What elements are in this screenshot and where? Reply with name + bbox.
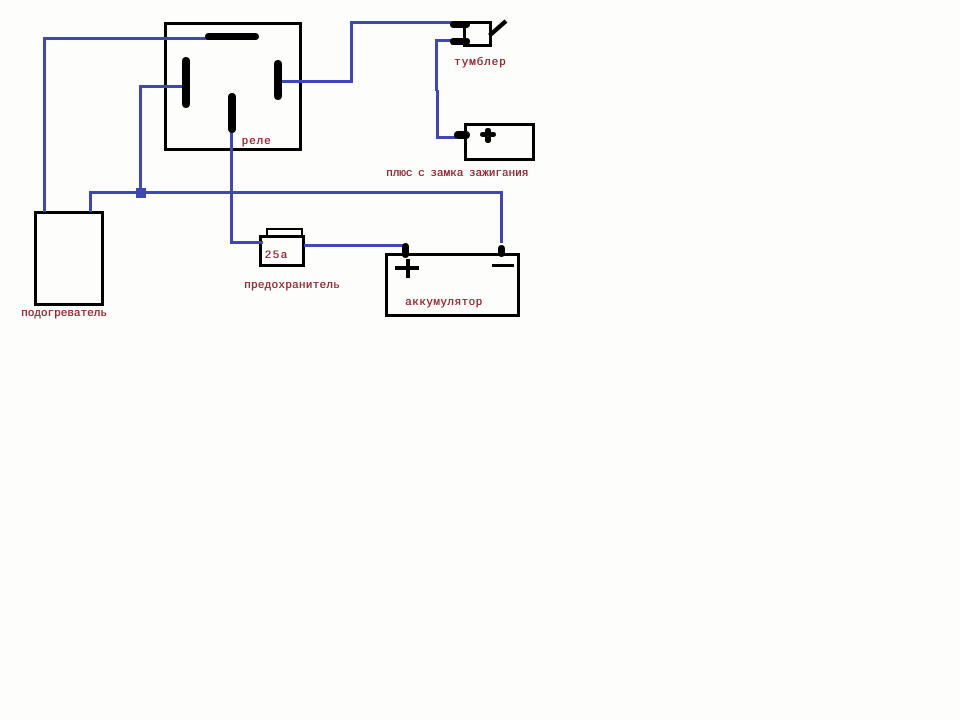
fuse F1 lid <box>266 228 303 237</box>
switch lever <box>485 16 511 40</box>
wire: vertical drop to battery minus terminal <box>500 191 503 243</box>
relay pin 30 blade (top horizontal) <box>205 33 259 40</box>
wire: relay pin87 left horizontal stub <box>139 85 185 88</box>
wire: fuse right to battery plus <box>304 244 404 247</box>
wire: long horizontal bus from heater to battery minus <box>89 191 504 194</box>
switch label <box>454 58 507 69</box>
ignition plus sign vertical stroke <box>485 128 491 143</box>
wire: horizontal into ignition plus terminal <box>436 136 456 139</box>
junction node <box>136 188 146 198</box>
battery plus symbol vertical stroke <box>406 259 410 278</box>
fuse label <box>244 281 340 292</box>
battery plus symbol horizontal stroke <box>395 266 419 270</box>
wire: vertical riser right of relay <box>350 21 353 83</box>
battery minus terminal <box>498 245 505 257</box>
switch bottom terminal <box>450 38 470 45</box>
wire: vertical from relay pin87 down to junction <box>139 85 142 193</box>
battery minus symbol <box>492 264 514 268</box>
toggle switch S1 body <box>463 21 492 47</box>
ignition terminal oval <box>454 131 470 139</box>
fuse F1 body <box>259 235 305 267</box>
relay K1 body <box>164 22 302 151</box>
wire: switch drop lower segment with jog <box>436 90 439 139</box>
relay pin 86 blade (right vertical) <box>274 60 282 100</box>
battery plus terminal <box>402 243 410 258</box>
heater body <box>34 211 104 307</box>
wire: horizontal into fuse left <box>230 241 263 244</box>
heater label <box>21 309 107 320</box>
ignition plus sign horizontal stroke <box>480 132 496 137</box>
wire: relay pin86 right horizontal <box>282 80 353 83</box>
battery label <box>405 298 483 309</box>
ignition label <box>386 169 528 180</box>
wire: switch bottom terminal stub <box>436 39 452 42</box>
wire: relay pin85 vertical down <box>230 132 233 244</box>
wire: relay pin30 top-left horizontal to heater drop <box>43 37 208 40</box>
wire: left vertical down to heater top <box>43 37 46 212</box>
relay label <box>242 137 272 148</box>
wire: horizontal to switch top terminal <box>350 21 453 24</box>
fuse value 25a <box>265 251 289 262</box>
wire: heater right vertical riser <box>89 191 92 212</box>
relay pin 85 blade (middle vertical) <box>228 93 236 134</box>
ignition plus source box <box>464 123 535 161</box>
battery body <box>385 253 520 317</box>
wire: switch drop upper segment <box>435 39 438 91</box>
switch top terminal <box>450 21 470 28</box>
relay pin 87 blade (left vertical) <box>182 57 190 108</box>
